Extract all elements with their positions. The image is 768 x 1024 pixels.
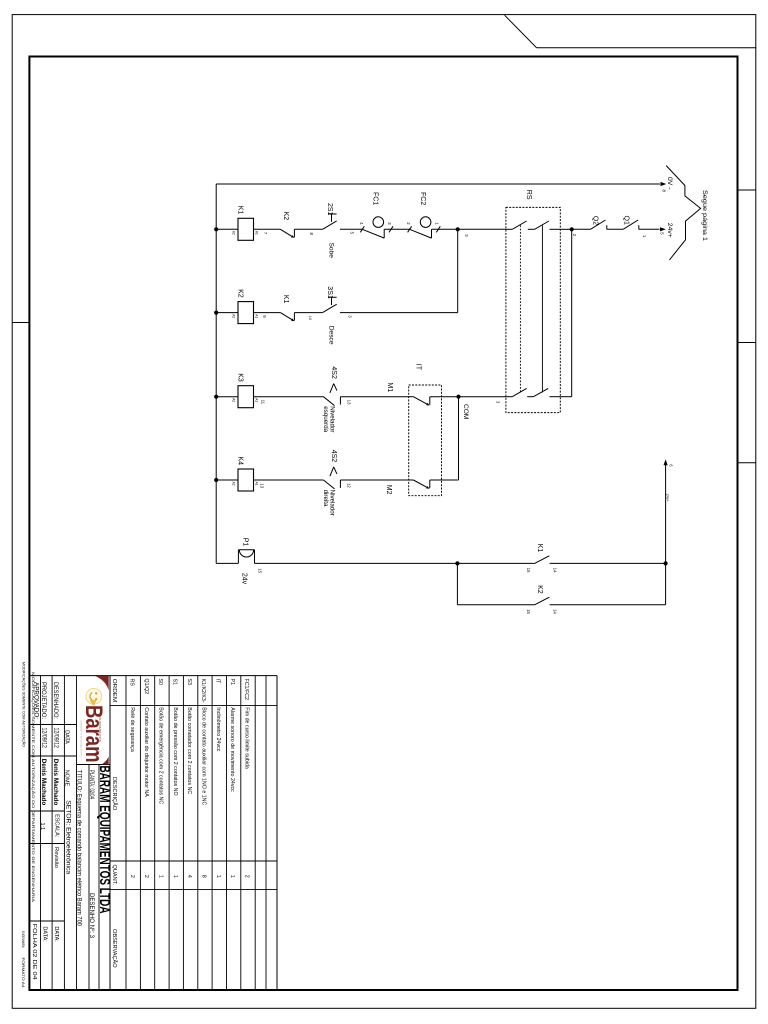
binding strip diagonal cut [505,15,537,48]
coil K2 [238,302,254,324]
svg-text:qualidade e tecnologia Baram: qualidade e tecnologia Baram [79,721,83,759]
vertical bus 0V [215,184,217,563]
svg-text:2: 2 [406,222,411,225]
junction rung5 [455,561,459,565]
svg-text:K1: K1 [237,206,244,215]
wire rung4 bus to K4 [216,479,238,481]
svg-text:FORMATO A4: FORMATO A4 [21,958,26,989]
svg-text:RS: RS [128,679,134,687]
wire K1 to 3S1 [294,312,322,314]
svg-text:Inclinômetro 24vcc: Inclinômetro 24vcc [215,707,221,752]
svg-text:10: 10 [308,316,312,320]
svg-text:2S1: 2S1 [326,203,333,216]
junction bus-rung1 [214,227,218,231]
svg-text:FOLHA 02 DE 04: FOLHA 02 DE 04 [31,924,37,981]
wire FC2 to node 3 [432,228,458,230]
svg-text:Fim de curso limite subida: Fim de curso limite subida [244,707,250,769]
drop wire to K2 branch [456,563,458,604]
svg-text:S0: S0 [157,679,163,686]
BOM column separators [110,705,277,707]
title block column separators [77,764,111,766]
junction bus-rung2 [214,311,218,315]
node 24v+ feed after Q1 [639,228,660,230]
svg-text:A1: A1 [254,398,258,402]
svg-text:M2: M2 [385,485,392,495]
wire FC1 to FC2 [384,228,409,230]
pushbutton 2S1 [323,221,337,229]
limit switch FC2 [408,226,412,232]
node 2 junction [570,227,574,231]
svg-text:K1/K2/K3-: K1/K2/K3- [200,679,206,703]
svg-text:PROJETADO:: PROJETADO: [40,682,46,719]
wire 2S1 to FC1 [340,228,362,230]
inclinometer IT box [409,385,442,496]
svg-text:DESENHADO:: DESENHADO: [52,682,58,719]
svg-text:DATA:: DATA: [42,926,48,942]
svg-text:P1: P1 [242,538,249,547]
riser K2 branch to 24v+ feed [665,462,667,605]
svg-text:3S1: 3S1 [326,286,333,299]
svg-text:1: 1 [434,222,439,225]
svg-text:K1: K1 [282,295,289,304]
svg-text:5: 5 [659,232,664,235]
svg-text:Contato auxiliar do disjuntor: Contato auxiliar do disjuntor motor NA [143,707,149,797]
selector switch 4S2 [323,480,334,489]
svg-text:Botão de emergência com 2 cont: Botão de emergência com 2 contatos NC [158,707,164,804]
svg-text:TITULO: Esquema de comando bal: TITULO: Esquema de comando balancim elét… [75,770,81,927]
wire IT M2 to riser [430,479,459,481]
svg-text:3: 3 [348,315,353,318]
wire 4S2 to IT M2 [340,479,408,481]
svg-text:A2: A2 [231,314,235,318]
wire K2 to 2S1 [294,228,322,230]
BOM header row edge [109,676,111,990]
selector switch 4S2 [323,397,334,406]
svg-text:4: 4 [359,222,364,225]
svg-text:7: 7 [263,232,268,235]
wire 4S2 to IT [340,396,408,398]
svg-text:K3: K3 [237,373,244,382]
BOM row boundaries [125,676,127,990]
RS bottom contact 2 [533,388,548,396]
safety relay RS box [506,207,560,412]
fold tick right border [738,462,756,464]
RS pole link 1 [519,225,521,392]
svg-text:12/09/12: 12/09/12 [40,728,46,749]
coil K3 [238,386,254,408]
title block BOM top edge [276,676,278,990]
svg-text:Relé de segurança: Relé de segurança [129,707,135,752]
svg-text:Bloco de contato auxiliar com: Bloco de contato auxiliar com 1NO e 1NC [201,707,207,805]
svg-text:S3: S3 [186,679,192,686]
svg-text:MODIFICAÇÕES SOMENTE COM AUTOR: MODIFICAÇÕES SOMENTE COM AUTORIZAÇÃO DO … [31,672,36,903]
RS bottom contact 1 [506,396,512,398]
riser node2 to RS bottom [571,229,573,396]
wire K1 to K2 contact [254,228,281,230]
svg-text:RS: RS [525,190,532,200]
title block outline top edge [29,675,277,677]
svg-text:P1: P1 [229,679,235,686]
node COM junction [456,395,460,399]
contact K1 aux [535,556,550,564]
svg-text:FC1: FC1 [372,192,379,205]
wire K3 to 4S2 [254,396,324,398]
wire IT M1 to COM node [430,396,459,398]
logo Baram [79,676,108,765]
RS pole link 2 [541,225,543,392]
svg-text:2: 2 [572,234,577,237]
svg-text:K2: K2 [237,289,244,298]
riser rung2 to rung1 node 3 [457,229,459,312]
svg-text:A1: A1 [254,231,258,235]
svg-text:6: 6 [668,464,673,467]
svg-text:A1: A1 [254,314,258,318]
buzzer P1 [237,550,239,564]
wire RS bottom exit [560,396,571,398]
svg-text:1: 1 [215,875,221,878]
node 3 junction [456,227,460,231]
svg-text:24v+: 24v+ [666,223,673,238]
wire node to K1 contact [457,562,534,564]
svg-text:DATA: DATA [63,730,69,744]
binding strip margin line [537,47,757,49]
svg-text:esquerda: esquerda [322,406,329,432]
breaker contact Q2 [572,228,591,230]
svg-text:1: 1 [158,875,164,878]
svg-text:13: 13 [259,483,264,488]
arrow 0V continuation [661,182,667,186]
svg-text:Alarme sonoro de movimento 24v: Alarme sonoro de movimento 24vcc [229,707,235,792]
svg-text:15: 15 [526,609,531,614]
wire K2 to K1 contact [254,312,281,314]
svg-text:5: 5 [350,232,355,235]
svg-text:DATA:: DATA: [53,926,59,942]
junction rung5 right [664,561,668,565]
svg-text:ORDEM: ORDEM [111,679,117,703]
svg-text:OBSERVAÇÃO: OBSERVAÇÃO [111,929,118,968]
svg-text:Q2: Q2 [591,216,598,225]
svg-text:8: 8 [309,233,314,236]
contact K2 aux [535,597,550,605]
title block row boundaries [98,765,100,991]
svg-text:13: 13 [346,400,351,405]
svg-text:0V -: 0V - [666,177,673,189]
svg-text:2: 2 [129,875,135,878]
svg-text:1: 1 [172,875,178,878]
svg-text:Revisão: Revisão [53,847,59,868]
svg-text:A2: A2 [231,231,235,235]
fold tick right border 3 [738,342,756,344]
RS top contact 1 [506,228,512,230]
wire RS top exit to node 2 [560,228,571,230]
svg-text:Q1: Q1 [622,216,629,225]
limit switch FC1 [360,226,364,232]
IT contact M1 [409,396,414,398]
svg-text:9: 9 [262,315,267,318]
svg-text:IT: IT [215,679,221,684]
svg-text:S1: S1 [172,679,178,686]
wire P1 to node [255,562,458,564]
svg-text:3: 3 [464,234,469,237]
svg-text:14: 14 [553,609,558,614]
wire rung1 bus to K1 [216,228,238,230]
svg-text:K2: K2 [282,212,289,221]
wire 0V rail [216,183,660,185]
wire branch to K2 contact [457,604,534,606]
svg-text:K4: K4 [237,457,244,466]
svg-text:K1: K1 [536,544,543,553]
svg-text:ESCALA:: ESCALA: [54,814,60,838]
svg-text:Q1/Q2: Q1/Q2 [143,679,149,695]
svg-text:A2: A2 [231,398,235,402]
junction bus-rung4 [214,478,218,482]
continuation brace Segue pagina 1 [666,166,700,260]
svg-text:NOME: NOME [63,770,69,787]
svg-text:BARAM EQUIPAMENTOS LTDA: BARAM EQUIPAMENTOS LTDA [96,766,112,914]
svg-text:4S2: 4S2 [330,366,337,379]
junction bus-rung3 [214,395,218,399]
wire Q2 to Q1 [607,228,623,230]
svg-text:1: 1 [642,235,647,238]
svg-text:Segue página 1: Segue página 1 [701,190,708,241]
svg-text:ENGENHARIA: ENGENHARIA [21,931,25,948]
contact K1 [280,313,293,321]
svg-text:IT: IT [415,364,422,371]
wire K4 to 4S2 [254,479,324,481]
svg-text:15: 15 [258,568,263,573]
svg-text:Desce: Desce [327,326,334,345]
svg-text:PLANTA: 02/04: PLANTA: 02/04 [88,770,94,799]
wire rung5 bus corner to P1 [216,562,238,564]
svg-text:3: 3 [387,222,392,225]
svg-text:Sobe: Sobe [327,243,334,259]
arrow 24v+ feed [664,459,668,465]
svg-text:K2: K2 [536,585,543,594]
svg-text:Denis Machado: Denis Machado [40,759,46,806]
svg-text:Botão de pressão com 2 contato: Botão de pressão com 2 contatos NO [172,707,178,795]
svg-text:2: 2 [244,875,250,878]
svg-text:24v: 24v [240,573,247,585]
svg-text:14: 14 [553,568,558,573]
svg-text:4S2: 4S2 [330,450,337,463]
svg-text:4: 4 [186,875,192,878]
wire 3S1 to riser [340,312,458,314]
svg-text:Denis Machado: Denis Machado [52,759,58,806]
breaker contact Q1 [623,220,638,229]
svg-text:EQUIPAMENTOS: EQUIPAMENTOS [98,714,102,742]
svg-text:FC1/FC2: FC1/FC2 [243,679,249,701]
coil K4 [238,469,254,491]
svg-text:24v+: 24v+ [666,494,670,502]
svg-text:8: 8 [201,875,207,878]
svg-text:A2: A2 [231,482,235,486]
svg-text:FC2: FC2 [419,192,426,205]
svg-text:11: 11 [260,400,265,405]
wire COM to RS bottom [459,396,506,398]
svg-text:direita: direita [322,490,329,507]
RS top contact 2 [535,221,549,229]
contact K2 [280,229,293,237]
IT contact M2 [409,479,414,481]
svg-text:M1: M1 [386,383,393,393]
riser COM to M2 [458,397,460,480]
svg-text:1:1: 1:1 [39,823,45,831]
svg-text:2: 2 [143,875,149,878]
svg-text:Botão comutador com 2 contatos: Botão comutador com 2 contatos NC [186,707,192,794]
wire rung3 bus to K3 [216,396,238,398]
coil K1 [238,218,254,240]
pushbutton 3S1 [323,304,337,312]
svg-text:A1: A1 [254,482,258,486]
wire node3 to RS [458,228,506,230]
fold tick right border 2 [738,189,756,191]
svg-text:12: 12 [346,483,351,488]
svg-text:MODIFICAÇÕES SOMENTE COM AUTOR: MODIFICAÇÕES SOMENTE COM AUTORIZAÇÃO [22,662,27,747]
svg-text:SETOR: Eletroeletrônica: SETOR: Eletroeletrônica [64,800,70,875]
arrow 24v+ continuation [660,227,666,231]
svg-text:12/09/12: 12/09/12 [52,728,58,749]
svg-text:DESENHO Nº: 3: DESENHO Nº: 3 [88,893,95,939]
svg-text:3: 3 [495,401,500,404]
svg-text:COM: COM [462,404,469,419]
svg-text:1: 1 [229,875,235,878]
svg-text:8: 8 [662,190,667,193]
svg-text:15: 15 [526,568,531,573]
fold tick left border [12,322,29,324]
wire rung2 bus to K2 [216,312,238,314]
